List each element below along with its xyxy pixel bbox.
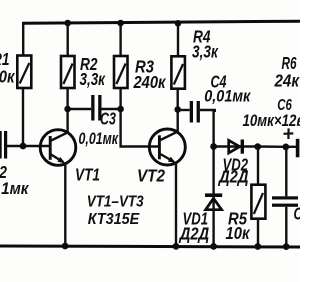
node top rail / R3 xyxy=(117,20,124,27)
polarity plus sign of C6 xyxy=(284,128,294,139)
node top rail / R4 xyxy=(175,20,182,27)
node ground / VT2 emitter xyxy=(173,243,180,250)
node VD2 cathode / R5 xyxy=(254,143,261,150)
capacitor C4 xyxy=(178,101,215,147)
resistor R2 xyxy=(61,23,75,133)
resistor R4 xyxy=(171,23,185,132)
svg-text:240к: 240к xyxy=(133,72,167,92)
svg-text:VT2: VT2 xyxy=(137,166,165,186)
svg-text:VT1: VT1 xyxy=(75,165,100,185)
svg-text:0,01мк: 0,01мк xyxy=(79,129,120,148)
svg-text:С5: С5 xyxy=(294,204,301,224)
transistor VT1 xyxy=(40,130,76,246)
node top rail / R2 xyxy=(64,20,71,27)
resistor R5 xyxy=(251,147,265,247)
capacitor C6 (electrolytic, clipped at right edge) xyxy=(286,139,300,158)
node C4 / VD1 / VD2 anode xyxy=(210,143,217,150)
node R4 / C4 / VT2 collector xyxy=(174,106,181,113)
wire C2 to VT1 base xyxy=(7,145,50,147)
transistor VT2 xyxy=(149,129,185,246)
wire bottom ground rail xyxy=(0,246,300,247)
svg-text:КТ315Е: КТ315Е xyxy=(88,211,141,228)
node R1 / VT1 base xyxy=(20,143,27,150)
svg-text:VT1–VT3: VT1–VT3 xyxy=(87,194,144,211)
node ground / R5 xyxy=(254,243,261,250)
svg-text:10к: 10к xyxy=(226,223,251,243)
capacitor C3 xyxy=(68,95,121,121)
svg-text:3,3к: 3,3к xyxy=(192,42,219,62)
node ground / VT1 emitter xyxy=(62,243,69,250)
diode VD1 xyxy=(205,147,222,247)
diode VD2 xyxy=(214,140,258,154)
svg-text:24к: 24к xyxy=(274,71,300,91)
resistor R1 xyxy=(17,22,31,147)
wire top supply rail xyxy=(23,21,300,23)
svg-text:С3: С3 xyxy=(100,109,116,129)
node R2 / C3 left xyxy=(64,106,71,113)
svg-text:Д2Д: Д2Д xyxy=(178,224,209,244)
node C5 / C6 xyxy=(282,144,289,151)
svg-text:10мк×12в: 10мк×12в xyxy=(243,112,301,130)
node ground / C5 xyxy=(283,243,290,250)
svg-text:0,1мк: 0,1мк xyxy=(0,179,30,198)
resistor R3 xyxy=(114,23,160,147)
wire VD2 cathode to C5/C6 node xyxy=(258,145,286,148)
node R3 / C3 right xyxy=(117,106,124,113)
svg-text:Д2Д: Д2Д xyxy=(217,167,248,187)
capacitor C5 xyxy=(272,147,298,246)
svg-text:0,01мк: 0,01мк xyxy=(204,87,251,106)
capacitor C2 (input, clipped at left edge) xyxy=(0,131,7,159)
svg-text:3,3к: 3,3к xyxy=(80,69,106,89)
svg-text:10к: 10к xyxy=(0,67,15,87)
node ground / VD1 xyxy=(210,243,217,250)
